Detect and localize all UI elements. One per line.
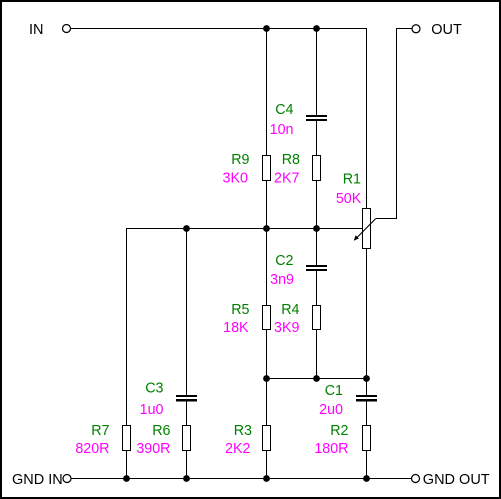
svg-text:3n9: 3n9 <box>270 272 294 288</box>
svg-text:180R: 180R <box>314 441 348 457</box>
svg-text:3K0: 3K0 <box>223 171 248 187</box>
svg-text:GND IN: GND IN <box>12 472 63 488</box>
svg-text:R3: R3 <box>234 423 252 439</box>
svg-text:OUT: OUT <box>431 22 462 38</box>
svg-text:820R: 820R <box>75 441 109 457</box>
svg-text:R4: R4 <box>281 302 299 318</box>
svg-text:R2: R2 <box>330 423 348 439</box>
svg-text:R1: R1 <box>343 172 361 188</box>
svg-text:C4: C4 <box>275 102 293 118</box>
svg-text:C1: C1 <box>325 383 343 399</box>
svg-text:C3: C3 <box>145 381 163 397</box>
svg-text:R7: R7 <box>91 423 109 439</box>
svg-text:R5: R5 <box>231 302 249 318</box>
svg-text:18K: 18K <box>223 320 249 336</box>
svg-text:2K7: 2K7 <box>274 171 299 187</box>
svg-text:390R: 390R <box>136 441 170 457</box>
svg-text:IN: IN <box>29 22 44 38</box>
svg-text:R9: R9 <box>231 152 249 168</box>
svg-text:10n: 10n <box>270 122 294 138</box>
svg-text:R6: R6 <box>152 423 170 439</box>
svg-text:C2: C2 <box>275 253 293 269</box>
svg-text:2u0: 2u0 <box>319 402 343 418</box>
svg-text:GND OUT: GND OUT <box>423 472 490 488</box>
svg-text:2K2: 2K2 <box>225 441 250 457</box>
svg-text:50K: 50K <box>336 191 362 207</box>
svg-text:1u0: 1u0 <box>140 402 164 418</box>
svg-text:R8: R8 <box>282 152 300 168</box>
svg-text:3K9: 3K9 <box>274 320 299 336</box>
